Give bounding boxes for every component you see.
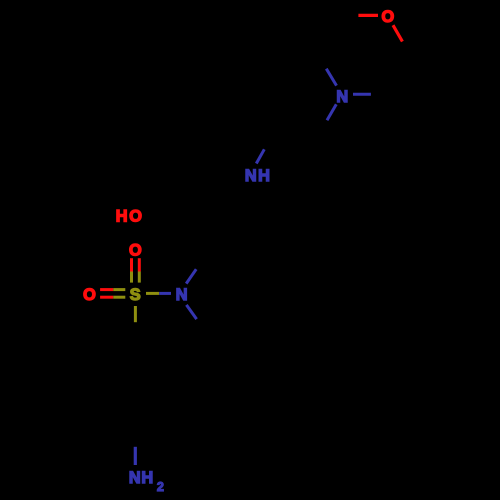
bond S1-N3 blue half (horizontal) [159,292,171,295]
bond S=O4 double bond top line red half [100,288,113,291]
bond S=O3 double bond left line olive half [130,272,133,283]
bond C-O1 half (red, horizontal) [358,14,378,17]
bond S=O4 double bond bottom line olive half [113,296,125,299]
svg-text:S: S [130,286,141,304]
svg-text:O: O [381,8,394,26]
svg-text:H: H [141,469,153,487]
bond N1-C half (blue, up-left) [326,69,336,86]
bond S=O4 double bond bottom line red half [100,296,113,299]
svg-text:O: O [83,286,96,304]
svg-text:H: H [258,167,270,185]
svg-text:N: N [245,167,257,185]
bond N1-C half (blue, horizontal right) [353,93,371,96]
bond S1-N3 olive half (horizontal) [146,292,159,295]
bond N4-C aryl blue half (vertical up) [134,447,137,465]
bond S1-C aryl olive half (vertical down) [134,306,137,322]
svg-text:O: O [129,242,142,260]
bond S=O3 double bond right line red half [138,258,141,271]
svg-text:N: N [129,469,141,487]
svg-text:O: O [129,207,142,225]
bond N2-C half (blue, up-right) [256,149,264,163]
bond N3-C half (blue, down-right) [186,305,196,319]
svg-text:H: H [116,207,128,225]
svg-text:2: 2 [157,480,164,494]
svg-text:N: N [176,286,188,304]
bond S=O4 double bond top line olive half [113,288,125,291]
svg-text:N: N [336,88,348,106]
bond S=O3 double bond left line red half [130,258,133,271]
bond N1-C half (blue, down-left) [327,104,336,120]
bond N3-C half (blue, up-right) [186,269,196,283]
bond S=O3 double bond right line olive half [138,272,141,283]
bond O1-C half (red, diagonal down-right) [393,25,402,41]
